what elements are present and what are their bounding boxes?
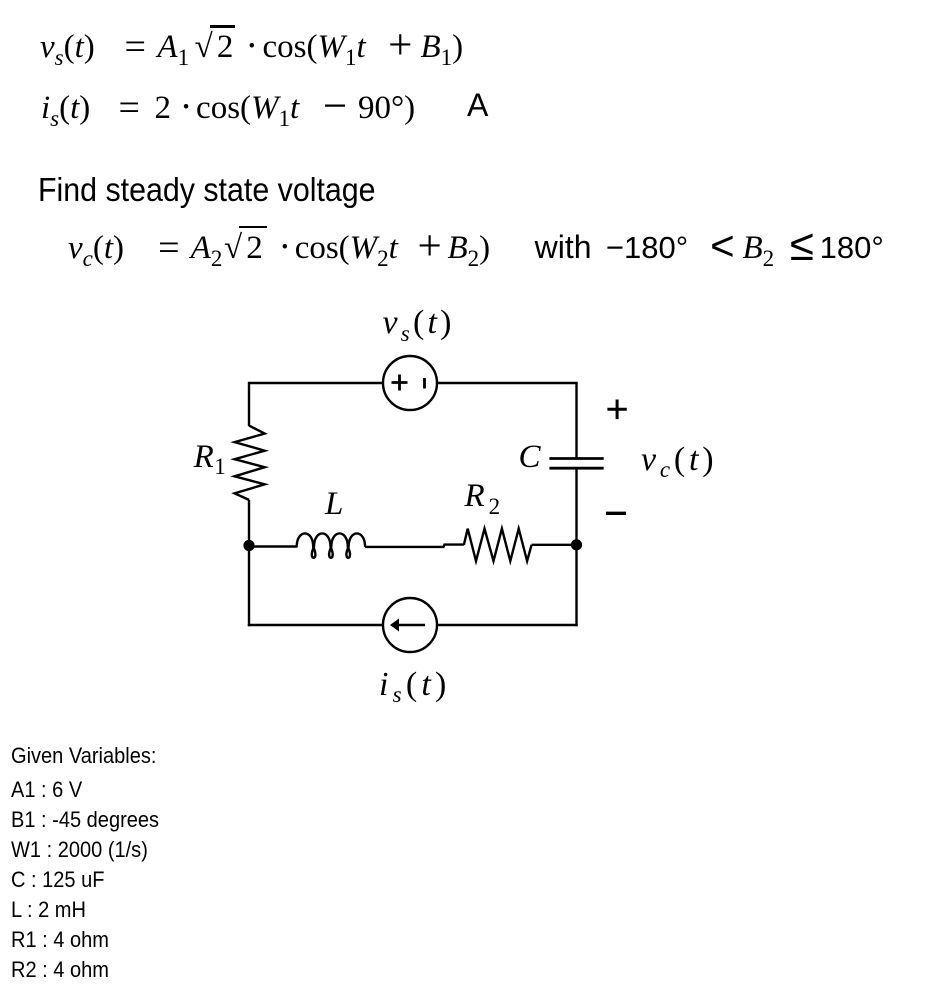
given variable L bbox=[11, 899, 86, 921]
current source arrow shaft bbox=[394, 624, 425, 627]
wire: right vertical lower segment bbox=[575, 468, 577, 626]
label R2 bbox=[465, 480, 505, 515]
node: right junction dot bbox=[571, 539, 582, 550]
equation line 2: is(t) = 2*cos(W1t - 90deg) bbox=[41, 88, 415, 127]
wire: right vertical upper segment to capacitor bbox=[575, 383, 577, 459]
radical vinculum of sqrt 2 in equation 1 bbox=[210, 25, 235, 28]
resistor R2 zigzag bbox=[464, 529, 532, 561]
minus sign of vc polarity bbox=[606, 512, 626, 515]
wire: middle horizontal left of inductor bbox=[249, 545, 298, 547]
wire: left vertical upper segment bbox=[248, 382, 250, 426]
unit label A for is(t) bbox=[467, 89, 488, 121]
capacitor C top plate bbox=[549, 457, 603, 460]
wire: top-right horizontal segment bbox=[437, 382, 578, 384]
resistor R1 zigzag bbox=[235, 426, 265, 500]
given variables heading bbox=[11, 745, 156, 767]
equation line 4: vc(t) = A2*sqrt(2)*cos(W2t + B2) with -180 < B2 <= 180 bbox=[68, 227, 884, 267]
label R1 bbox=[194, 441, 227, 476]
current source IS circle bbox=[383, 598, 437, 652]
given variable R1 bbox=[11, 929, 109, 951]
voltage source plus terminal bbox=[392, 375, 408, 391]
wire: left vertical lower segment bbox=[248, 500, 250, 626]
given variable W1 bbox=[11, 839, 148, 861]
wire: middle horizontal right of R2 bbox=[532, 544, 577, 546]
wire: top-left horizontal segment bbox=[249, 382, 383, 384]
label is(t) bbox=[379, 668, 451, 704]
given variable R2 bbox=[11, 959, 109, 981]
label vc(t) bbox=[641, 443, 717, 479]
wire: middle horizontal between inductor and R2 with jog bbox=[365, 545, 464, 547]
equation line 1: vs(t) = A1*sqrt(2)*cos(W1t + B1) bbox=[40, 27, 463, 66]
given variable B1 bbox=[11, 809, 159, 831]
voltage source minus terminal (vertical tick) bbox=[423, 378, 426, 389]
label vs(t) bbox=[383, 306, 455, 342]
prompt: Find steady state voltage bbox=[38, 173, 376, 206]
given variable C bbox=[11, 869, 104, 891]
plus sign of vc polarity bbox=[607, 400, 626, 420]
radical vinculum of sqrt 2 in equation 4 bbox=[239, 226, 267, 229]
voltage source VS circle bbox=[383, 356, 437, 410]
label C bbox=[519, 441, 541, 474]
wire: bottom-right horizontal segment bbox=[437, 624, 578, 626]
capacitor C bottom plate bbox=[549, 467, 603, 470]
current source arrow head bbox=[390, 619, 399, 632]
wire: bottom-left horizontal segment bbox=[248, 624, 383, 626]
node: left junction dot bbox=[243, 540, 254, 551]
label L bbox=[325, 488, 343, 521]
inductor L coil bbox=[297, 533, 365, 557]
given variable A1 bbox=[11, 779, 82, 801]
